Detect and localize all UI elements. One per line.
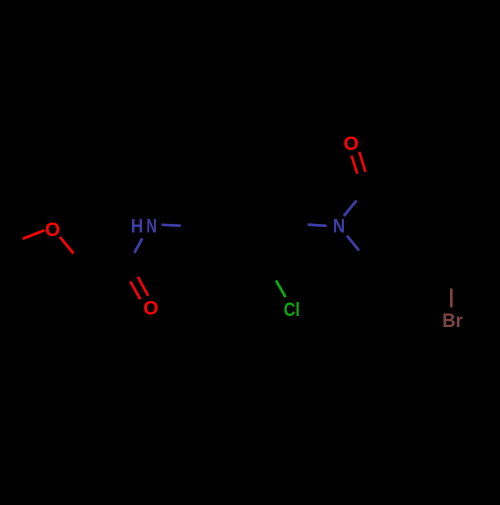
double bond C=O (lactam carbonyl, O-colored halves) (352, 156, 358, 174)
svg-text:N: N (146, 216, 157, 238)
svg-text:H: H (131, 216, 143, 238)
bond C(aryl)-Cl (Cl-colored half) (276, 280, 286, 297)
bond N2-C(=O) (lactam, N-colored half) (344, 201, 357, 217)
svg-text:N: N (333, 216, 345, 238)
double bond C=O (amide carbonyl, O-colored halves) (130, 282, 140, 300)
bond N-C(=O) (amide N to carbonyl C, N-colored half) (134, 238, 142, 253)
bond C(aryl)-N2 (ring N, N-colored half) (308, 225, 327, 226)
svg-text:Br: Br (442, 310, 463, 332)
svg-text:O: O (344, 133, 359, 155)
bond N-H..aryl (amide N to ring, N-colored half) (162, 223, 181, 227)
svg-text:O: O (45, 219, 60, 241)
svg-text:Cl: Cl (284, 299, 300, 321)
svg-text:O: O (143, 298, 158, 320)
bond CH3-O (methoxy, O-colored half) (23, 230, 45, 239)
bond O-CH2 (methoxy, O-colored half) (60, 237, 74, 254)
bond N2-CH2 (lactam, N-colored half) (347, 236, 359, 251)
bond C(aryl)-Br (Br-colored half) (450, 289, 453, 308)
